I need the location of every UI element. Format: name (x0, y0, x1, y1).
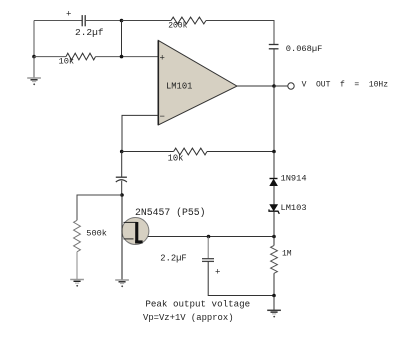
capacitor 0.068µF (269, 45, 279, 49)
wire: top rail junction to 200k (122, 20, 172, 22)
wire: AGC junction down to bottom cap (207, 237, 209, 259)
svg-text:+: + (215, 268, 220, 278)
wire: bottom junction to ground (273, 296, 275, 310)
resistor 1M (271, 246, 278, 274)
svg-text:Vp=Vz+1V (approx): Vp=Vz+1V (approx) (143, 313, 234, 323)
diode D1 1N914 (270, 179, 278, 186)
ground G4 (267, 310, 281, 317)
svg-text:LM103: LM103 (281, 203, 307, 213)
svg-text:200k: 200k (168, 22, 187, 31)
svg-text:+: + (66, 9, 71, 19)
diode D2 LM103 (zener) (269, 205, 279, 214)
svg-text:LM101: LM101 (166, 82, 192, 92)
svg-text:+: + (160, 53, 165, 63)
resistor 10k (top) (66, 53, 96, 60)
wire: output stub (274, 85, 289, 87)
ground G3 (115, 280, 129, 287)
wire: between diodes (273, 186, 275, 205)
svg-text:0.068µF: 0.068µF (286, 44, 323, 54)
resistor 10k (feedback) (174, 148, 207, 155)
capacitor (mid, unlabeled polarized) (116, 177, 127, 182)
wire: bottom cap to bottom rail (208, 261, 274, 295)
svg-text:1N914: 1N914 (281, 173, 307, 183)
capacitor 2.2µF (bottom) (202, 259, 214, 262)
wire: gate rail vertical through transistor to ground (121, 195, 123, 280)
wire: top rail left segment (34, 20, 82, 22)
wire: right rail cap to output node (273, 49, 275, 86)
node: inverting feedback junction (120, 150, 124, 154)
wire: op-amp output to right rail (237, 85, 274, 87)
wire: right rail output to feedback junction (273, 86, 275, 152)
node: AGC cap junction (207, 235, 211, 239)
wire: drain junction to 500k (77, 195, 122, 220)
wire: left rail to ground (33, 57, 35, 78)
svg-text:2N5457 (P55): 2N5457 (P55) (135, 207, 206, 218)
wire: 500k to ground (76, 252, 78, 279)
svg-text:500k: 500k (86, 229, 107, 239)
wire: 1M to bottom junction (273, 273, 275, 295)
resistor 500k (74, 220, 81, 252)
node: + input junction (120, 55, 124, 59)
svg-text:−: − (160, 112, 165, 122)
wire: AGC wire from transistor to right rail (148, 236, 274, 238)
ground G2 (70, 280, 84, 287)
svg-text:V OUT f = 10Hz: V OUT f = 10Hz (302, 80, 389, 89)
node: top junction (120, 19, 124, 23)
op-amp U1 LM101 (158, 40, 237, 125)
svg-text:1M: 1M (282, 250, 292, 259)
node: drain junction (120, 193, 124, 197)
svg-text:2.2µF: 2.2µF (160, 253, 186, 263)
terminal: output circle (288, 83, 294, 89)
capacitor 2.2µf (top, polarized) (82, 15, 85, 26)
wire: right rail to 1N914 (273, 152, 275, 179)
wire: noninverting input to op-amp (96, 56, 159, 58)
wire: inverting input from op-amp to corner (122, 115, 158, 151)
node: output junction (272, 84, 276, 88)
svg-text:10k: 10k (168, 153, 184, 163)
transistor Q1 2N5457 (JFET) (122, 218, 149, 245)
wire: inverting node down to mid capacitor (121, 152, 123, 178)
svg-text:10k: 10k (59, 56, 75, 66)
svg-text:2.2µf: 2.2µf (75, 27, 104, 38)
wire: left rail (33, 21, 35, 57)
wire: noninverting input left segment (34, 56, 66, 58)
node: right rail feedback junction (272, 150, 276, 154)
wire: mid capacitor to drain junction (121, 181, 123, 195)
wire: top rail 200k to right rail corner (206, 21, 274, 45)
wire: vertical from top junction to + input (121, 21, 123, 57)
wire: 10k feedback to right rail (207, 151, 274, 153)
node: bottom junction (272, 294, 276, 298)
node: left junction (32, 55, 36, 59)
ground G1 (27, 78, 41, 85)
wire: feedback wire to 10k bottom (122, 151, 174, 153)
wire: AGC junction to 1M (273, 237, 275, 246)
node: right rail AGC junction (272, 235, 276, 239)
svg-text:Peak output voltage: Peak output voltage (145, 299, 250, 310)
wire: LM103 to AGC junction (273, 211, 275, 236)
resistor 200k (171, 17, 206, 24)
wire: top rail cap to junction (85, 20, 121, 22)
